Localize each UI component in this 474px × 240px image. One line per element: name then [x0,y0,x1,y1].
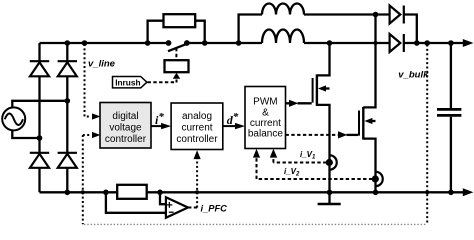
svg-text:controller: controller [176,134,218,145]
svg-text:v_bulk: v_bulk [398,70,429,81]
svg-text:current: current [250,118,281,129]
svg-text:controller: controller [105,134,147,145]
svg-text:Inrush: Inrush [115,78,140,88]
svg-text:digital: digital [112,111,138,122]
svg-text:current: current [181,122,212,133]
svg-text:v_line: v_line [88,59,116,70]
svg-text:i_PFC: i_PFC [201,203,228,213]
svg-text:analog: analog [182,111,212,122]
svg-text:PWM: PWM [253,97,277,108]
svg-text:i_V1: i_V1 [300,150,316,161]
svg-text:&: & [262,107,269,118]
svg-text:voltage: voltage [109,122,142,133]
svg-text:balance: balance [248,129,283,140]
svg-text:i_V2: i_V2 [284,167,300,178]
